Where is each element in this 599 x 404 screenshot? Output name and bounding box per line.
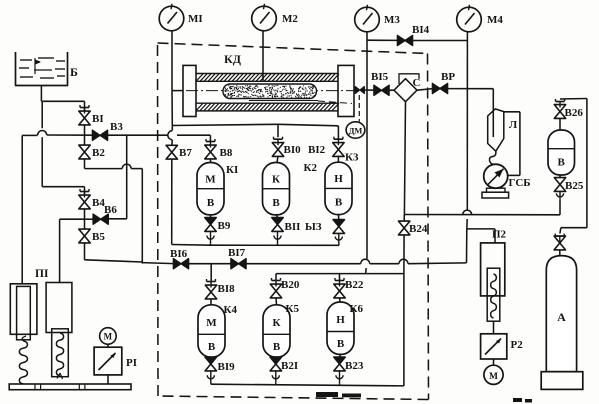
svg-text:В20: В20 bbox=[281, 279, 300, 291]
recorder R2 bbox=[481, 334, 507, 359]
svg-text:ВI7: ВI7 bbox=[228, 247, 246, 259]
wire BP to L trap bbox=[447, 88, 493, 90]
vessel K3 bbox=[325, 162, 352, 214]
valve B20 bbox=[270, 284, 281, 291]
wire K1-row drain header bbox=[210, 244, 212, 245]
wire B6 line left to P1-right bbox=[85, 218, 94, 220]
svg-text:В: В bbox=[207, 197, 215, 209]
wire tank outlet to B1 riser bbox=[41, 100, 84, 102]
wire L to GSB meter bbox=[504, 111, 520, 113]
vessel K6 bbox=[327, 302, 354, 354]
wire B25 down to y215 line bbox=[559, 200, 561, 215]
svg-text:К4: К4 bbox=[224, 304, 238, 316]
svg-text:ПІ: ПІ bbox=[35, 268, 49, 280]
svg-text:В2I: В2I bbox=[281, 360, 298, 372]
svg-text:В6: В6 bbox=[104, 204, 117, 216]
vessel K4 bbox=[198, 305, 225, 357]
valve B26 bbox=[554, 105, 565, 112]
wire B5 outlet to main header bbox=[84, 242, 86, 258]
valve B25 bbox=[554, 178, 565, 185]
svg-text:В3: В3 bbox=[110, 121, 123, 133]
svg-text:В: В bbox=[273, 341, 281, 353]
svg-text:В: В bbox=[208, 341, 216, 353]
gas meter GSB bbox=[484, 164, 508, 188]
reactor KD body bbox=[183, 65, 196, 116]
caption fragment right bbox=[513, 398, 522, 402]
hop on y215 line bbox=[463, 210, 472, 214]
valve B13 bbox=[333, 220, 344, 227]
svg-text:К3: К3 bbox=[345, 152, 359, 164]
svg-text:В7: В7 bbox=[179, 147, 192, 159]
device P1 right cylinder bbox=[46, 283, 72, 333]
valve B4 bbox=[79, 195, 90, 202]
valve B1 bbox=[79, 111, 90, 118]
device P2 tube bbox=[487, 268, 500, 321]
caption fragment left bbox=[316, 392, 338, 397]
valve B21 bbox=[270, 357, 281, 364]
wire B7 down to drain header bbox=[171, 159, 173, 245]
svg-text:М3: М3 bbox=[384, 14, 400, 26]
wire A-inlet to cylinder bbox=[559, 249, 561, 255]
valve B8 bbox=[205, 145, 216, 152]
svg-text:В2: В2 bbox=[92, 147, 105, 159]
DM impulse dashed bbox=[358, 95, 360, 122]
wire K2-B11 bbox=[277, 215, 278, 218]
wire K4-B19 bbox=[210, 356, 213, 358]
wire tank outlet down bbox=[40, 86, 42, 102]
vessel K5 bbox=[263, 305, 290, 357]
valve B15 bbox=[374, 85, 382, 95]
wire B4-B5 bbox=[84, 208, 86, 229]
wire M2 stem bbox=[262, 31, 264, 81]
svg-text:ВII: ВII bbox=[285, 221, 301, 233]
drain B9 bbox=[210, 231, 212, 244]
motor M (R2) bbox=[484, 365, 503, 384]
svg-text:М: М bbox=[489, 372, 498, 382]
wire K6-B23 bbox=[340, 354, 341, 357]
wire B12-K3 bbox=[337, 156, 339, 162]
wire B2 outlet to riser x142 bbox=[84, 158, 86, 168]
valve B16 bbox=[173, 259, 181, 269]
wire K4-row drain header bbox=[210, 383, 212, 386]
wire B14 line bbox=[367, 39, 398, 41]
svg-text:П2: П2 bbox=[492, 229, 507, 241]
recorder R1 bbox=[94, 347, 122, 375]
svg-text:К2: К2 bbox=[304, 162, 318, 174]
svg-text:М: М bbox=[104, 332, 113, 342]
svg-text:М: М bbox=[205, 173, 216, 185]
gauge motor M (R1) bbox=[100, 328, 117, 345]
P1 left spring bbox=[22, 336, 26, 341]
svg-text:КI: КI bbox=[226, 164, 238, 176]
wire B3 line (P1-left header) bbox=[22, 134, 38, 136]
valve B10 bbox=[272, 143, 283, 150]
svg-text:В: В bbox=[272, 197, 280, 209]
valve B7 bbox=[166, 145, 177, 152]
wire K-row upper feed bbox=[172, 124, 278, 125]
valve B3 bbox=[92, 130, 100, 140]
drain B13 bbox=[338, 233, 340, 244]
svg-text:В22: В22 bbox=[345, 279, 364, 291]
svg-text:А: А bbox=[557, 310, 566, 324]
svg-text:К6: К6 bbox=[350, 303, 364, 315]
svg-text:ДМ: ДМ bbox=[349, 125, 363, 135]
wire B20-K5 bbox=[275, 297, 278, 304]
valve B11 bbox=[272, 218, 283, 225]
KD centerline bbox=[186, 90, 360, 92]
P2 coil bbox=[491, 274, 497, 318]
svg-text:ВI5: ВI5 bbox=[371, 71, 389, 83]
svg-text:ВI2: ВI2 bbox=[308, 144, 326, 156]
valve B14 bbox=[397, 35, 405, 45]
wire B22-K6 bbox=[339, 297, 342, 302]
svg-text:В: В bbox=[558, 157, 566, 169]
svg-text:ВI8: ВI8 bbox=[218, 283, 236, 295]
svg-text:К: К bbox=[272, 173, 280, 185]
wire filter to BP bbox=[417, 89, 433, 91]
wire main header y263 bbox=[84, 260, 142, 262]
wire B3/B6 riser x126 bbox=[126, 135, 128, 219]
P1 right spring bbox=[56, 333, 63, 376]
valve A-inlet bbox=[554, 236, 565, 243]
valve B5 bbox=[79, 229, 90, 236]
valve B12 bbox=[333, 143, 344, 150]
wire B18 riser bbox=[210, 264, 212, 281]
tank B (open reservoir with liquid) bbox=[16, 52, 68, 86]
svg-text:Н: Н bbox=[334, 173, 343, 185]
valve B2 bbox=[79, 145, 90, 152]
wire B10-K2 bbox=[277, 156, 278, 163]
P1 base platform bbox=[9, 384, 131, 390]
wire KD left flange stub bbox=[172, 90, 183, 92]
svg-text:ЫЗ: ЫЗ bbox=[305, 221, 322, 233]
svg-text:С: С bbox=[413, 77, 421, 89]
svg-text:К5: К5 bbox=[286, 303, 300, 315]
manometer M1 bbox=[159, 6, 184, 31]
drain B21 bbox=[275, 370, 277, 383]
svg-text:ВI: ВI bbox=[92, 113, 104, 125]
manometer M3 bbox=[355, 7, 380, 32]
svg-text:М4: М4 bbox=[487, 14, 503, 26]
wire R2-M bbox=[493, 359, 495, 365]
vessel K1 bbox=[197, 163, 224, 215]
wire P2-R2 bbox=[493, 321, 495, 334]
vessel K2 bbox=[263, 163, 290, 215]
wire KD outlet bbox=[354, 89, 355, 91]
wire P1-left feed bbox=[21, 135, 23, 283]
svg-text:В: В bbox=[337, 338, 345, 350]
KD outlet bowtie bbox=[355, 86, 360, 93]
svg-text:РI: РI bbox=[126, 357, 137, 369]
svg-text:ВI9: ВI9 bbox=[218, 361, 236, 373]
svg-text:МI: МI bbox=[188, 13, 203, 25]
valve B24 bbox=[398, 221, 409, 228]
wire B26 to vessel B bbox=[559, 118, 561, 130]
valve BP bbox=[432, 83, 440, 93]
trap L bbox=[488, 109, 504, 151]
valve B17 bbox=[231, 259, 239, 269]
svg-text:В9: В9 bbox=[218, 220, 231, 232]
valve B6 bbox=[93, 214, 101, 224]
valve B18 bbox=[205, 285, 216, 292]
valve B19 bbox=[205, 357, 216, 364]
svg-text:М: М bbox=[206, 317, 217, 329]
filter C bbox=[394, 79, 417, 102]
drain B23 bbox=[339, 370, 341, 383]
valve B9 bbox=[205, 218, 216, 225]
sensor DM bbox=[346, 122, 365, 138]
wire M1 stem bbox=[171, 31, 173, 91]
svg-text:ГСБ: ГСБ bbox=[509, 177, 531, 189]
svg-text:В23: В23 bbox=[345, 360, 364, 372]
wire filter drain / B24 column bbox=[404, 102, 405, 215]
valve B23 bbox=[334, 357, 345, 364]
drain B19 bbox=[210, 370, 212, 383]
svg-text:ВI0: ВI0 bbox=[284, 144, 302, 156]
vessel B bbox=[548, 130, 575, 175]
svg-text:М2: М2 bbox=[282, 13, 298, 25]
drain B11 bbox=[277, 231, 279, 244]
KD thermowell dashed bbox=[249, 100, 318, 102]
wire K3-B13 bbox=[338, 215, 340, 221]
svg-text:Н: Н bbox=[336, 314, 345, 326]
wire B22 riser bbox=[339, 274, 341, 281]
wire M-R1 bbox=[107, 344, 109, 347]
device P2 jacket bbox=[481, 243, 505, 296]
wire vessel B to B25 bbox=[559, 175, 561, 178]
svg-text:В5: В5 bbox=[92, 231, 105, 243]
svg-text:В24: В24 bbox=[409, 223, 428, 235]
svg-text:В26: В26 bbox=[565, 107, 584, 119]
wire K1-B9 bbox=[210, 215, 212, 218]
svg-text:ВI4: ВI4 bbox=[412, 24, 430, 36]
manometer M2 bbox=[252, 6, 277, 31]
test-rig boundary (dashed enclosure) bbox=[158, 43, 428, 54]
wire B18-K4 bbox=[210, 298, 212, 304]
svg-text:Б: Б bbox=[70, 65, 78, 79]
svg-text:В8: В8 bbox=[220, 147, 233, 159]
svg-text:В25: В25 bbox=[565, 180, 584, 192]
wire R1 stem bbox=[107, 375, 109, 384]
wire B1-B2 bbox=[84, 124, 86, 145]
wire tank branch down to B4 line bbox=[41, 101, 43, 128]
wire K5/K6 feed line bbox=[275, 274, 277, 281]
device P1 left cylinder bbox=[10, 284, 37, 335]
GSB inlet curl bbox=[489, 151, 495, 164]
svg-text:К: К bbox=[273, 317, 281, 329]
svg-text:КД: КД bbox=[224, 52, 242, 66]
wire bypass over B26 bbox=[560, 98, 587, 101]
wire B10 riser bbox=[277, 124, 279, 137]
wire K5-B21 bbox=[275, 356, 278, 358]
svg-text:Р2: Р2 bbox=[511, 339, 524, 351]
wire M3 stem bbox=[366, 32, 368, 259]
svg-text:В: В bbox=[335, 197, 343, 209]
svg-text:ВР: ВР bbox=[441, 71, 455, 83]
wire M4 riser bbox=[466, 32, 468, 210]
svg-text:ВI6: ВI6 bbox=[170, 248, 188, 260]
wire B15 to filter bbox=[389, 89, 394, 91]
svg-text:Л: Л bbox=[509, 119, 518, 131]
wire B8-K1 bbox=[210, 158, 212, 162]
valve B22 bbox=[334, 284, 345, 291]
union below B25 bbox=[559, 191, 561, 200]
manometer M4 bbox=[457, 7, 482, 32]
wire P2 branch bbox=[467, 228, 495, 230]
gas bottle A bbox=[546, 256, 576, 372]
